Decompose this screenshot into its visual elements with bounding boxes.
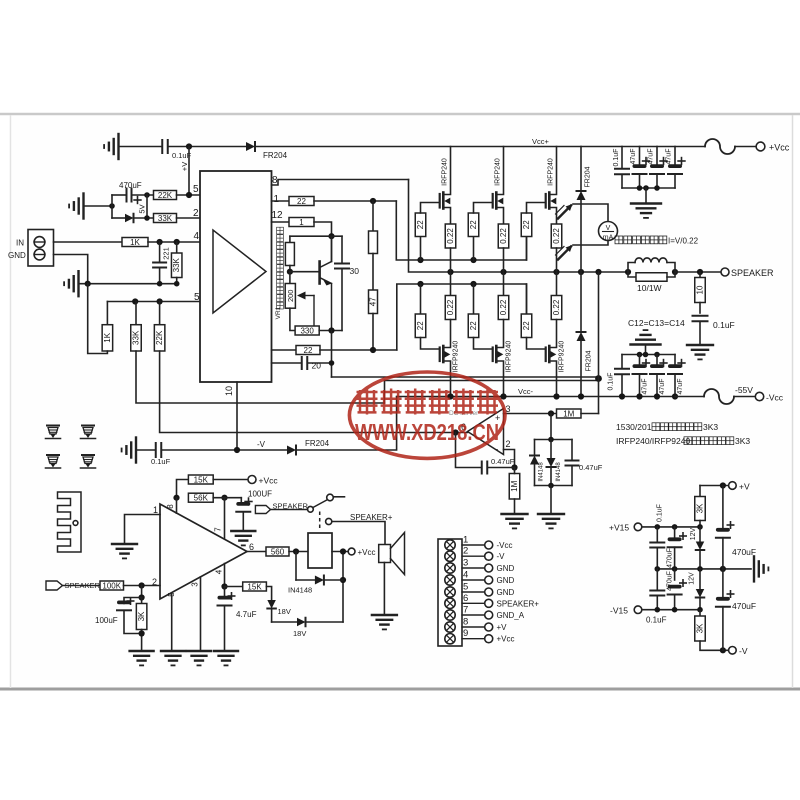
svg-text:12: 12 xyxy=(272,210,284,221)
resistor 1K (feedback) xyxy=(102,325,113,351)
svg-text:20: 20 xyxy=(312,361,322,371)
ground G11 xyxy=(112,543,137,545)
tag SPEAKER (input) xyxy=(46,581,63,590)
svg-text:22: 22 xyxy=(416,321,425,330)
transistor IRFP9240 #3 xyxy=(545,348,547,362)
ground G7 xyxy=(502,513,528,515)
node xyxy=(109,203,115,209)
ground G16 xyxy=(214,650,238,652)
ground G4 (Vcc+ bank) xyxy=(645,188,647,203)
svg-text:10/1W: 10/1W xyxy=(637,283,662,293)
svg-text:0.22: 0.22 xyxy=(552,299,561,315)
svg-text:Vcc-: Vcc- xyxy=(518,387,534,396)
terminal +V15 xyxy=(634,523,642,531)
svg-text:3K: 3K xyxy=(696,623,705,633)
diode FR204 (upper clamp) xyxy=(580,147,582,192)
svg-text:-V: -V xyxy=(257,440,266,449)
node sense junction xyxy=(595,375,602,382)
svg-text:100uF: 100uF xyxy=(95,616,118,625)
svg-text:+V: +V xyxy=(739,482,750,492)
svg-text:47uF: 47uF xyxy=(630,149,637,165)
svg-text:-55V: -55V xyxy=(735,385,753,395)
svg-text:IRFP9240: IRFP9240 xyxy=(506,341,513,373)
wire xyxy=(272,621,297,623)
svg-text:47uF: 47uF xyxy=(677,379,684,395)
svg-text:0.1uF: 0.1uF xyxy=(608,373,615,391)
ground G13 xyxy=(130,650,154,652)
resistor 47 xyxy=(369,290,378,314)
svg-text:33K: 33K xyxy=(172,257,181,272)
wire pin5 xyxy=(171,593,173,650)
ground G2 xyxy=(82,194,84,219)
wire -V to Vcc- rail xyxy=(296,397,397,451)
svg-text:0.1uF: 0.1uF xyxy=(151,457,171,466)
vertical CJK note (VR1 adjust) xyxy=(277,227,284,309)
inductor 10/1W with parallel resistor xyxy=(625,269,631,275)
diode IN4148 (up) xyxy=(534,440,536,456)
svg-text:SPEAKER+: SPEAKER+ xyxy=(497,599,540,608)
wire xyxy=(383,563,385,615)
resistor 22 (gate, IRFP9240 #2) xyxy=(473,284,475,314)
wire ground bus xyxy=(79,283,177,285)
wire relay to +Vcc xyxy=(332,551,348,553)
resistor 0.22 (source, IRFP9240 #2) xyxy=(503,272,505,296)
resistor 10 (Zobel) xyxy=(699,272,701,278)
wire output sense riser xyxy=(598,272,600,414)
capacitor 470uF (PSU lower) xyxy=(674,569,676,580)
resistor 33K xyxy=(154,214,177,223)
diode IN4148 (relay) xyxy=(296,579,315,581)
resistor 22 (gate, IRFP240 #3) xyxy=(526,237,528,261)
resistor 1M (to ground) xyxy=(509,474,520,500)
wire 33K to bus xyxy=(136,351,385,403)
wire x331.5 down xyxy=(331,331,333,378)
label bias test note xyxy=(615,236,623,244)
resistor 56K xyxy=(188,493,213,502)
resistor 22 (gate, IRFP9240 #1) xyxy=(420,284,422,314)
svg-text:10: 10 xyxy=(224,386,234,396)
pin row cap 20 xyxy=(272,362,302,364)
svg-text:5: 5 xyxy=(193,184,199,195)
ground G12 xyxy=(231,530,255,532)
svg-text:7: 7 xyxy=(214,527,223,532)
ground G3 xyxy=(77,271,79,296)
wire bank top xyxy=(622,354,675,356)
svg-text:+Vcc: +Vcc xyxy=(769,143,790,153)
resistor 0.22 (source, IRFP240 #2) xyxy=(498,224,509,248)
resistor 0.22 (source, IRFP9240 #3) xyxy=(556,272,558,296)
ground G6 (Zobel) xyxy=(687,344,713,346)
svg-text:0.47uF: 0.47uF xyxy=(579,463,603,472)
terminal -Vcc xyxy=(755,392,763,400)
resistor 3K (upper) xyxy=(699,486,701,497)
transistor IRFP240 #2 xyxy=(492,194,494,208)
transistor Q1 (bias) xyxy=(318,262,321,284)
relay K1 xyxy=(308,533,332,568)
svg-text:47uF: 47uF xyxy=(659,379,666,395)
svg-text:+V: +V xyxy=(497,623,508,632)
svg-text:22: 22 xyxy=(304,346,313,355)
resistor 0.22 (source, IRFP9240 #1) xyxy=(450,272,452,296)
capacitor 47uF (Vcc+ bank #2) xyxy=(656,147,658,168)
wire +V15 rail xyxy=(642,526,700,528)
svg-text:22: 22 xyxy=(416,220,425,229)
svg-text:SPEAKER+: SPEAKER+ xyxy=(350,513,393,522)
svg-text:3K3: 3K3 xyxy=(703,422,718,432)
wire Vcc+ rail xyxy=(256,146,706,148)
svg-text:+V: +V xyxy=(180,162,189,171)
svg-text:22: 22 xyxy=(297,197,306,206)
pin 4 (GND) xyxy=(445,575,455,585)
svg-text:FR204: FR204 xyxy=(305,439,330,448)
svg-text:1: 1 xyxy=(153,505,158,515)
svg-text:4: 4 xyxy=(215,569,224,574)
resistor 560 xyxy=(247,551,266,553)
resistor (VR1 upper) xyxy=(289,236,291,242)
svg-text:5V: 5V xyxy=(138,204,147,213)
capacitor 47uF (Vcc- bank #2) xyxy=(656,355,658,368)
svg-text:8: 8 xyxy=(166,504,175,509)
svg-text:330: 330 xyxy=(300,326,314,335)
svg-text:C12=C13=C14: C12=C13=C14 xyxy=(628,318,685,328)
wire bias network top xyxy=(290,235,342,237)
resistor 1K (input) xyxy=(122,238,148,247)
wire to pin4 xyxy=(148,241,200,243)
capacitor 47uF (Vcc+ bank #3) xyxy=(674,147,676,168)
svg-text:3: 3 xyxy=(191,582,200,587)
svg-text:+Vcc: +Vcc xyxy=(497,635,515,644)
pin 9 (+Vcc) xyxy=(445,634,455,644)
capacitor 47uF (Vcc- bank #1) xyxy=(639,355,641,368)
transistor IRFP240 #1 xyxy=(439,194,441,208)
probe arrow (lower) xyxy=(558,247,571,260)
resistor 22K (vertical) xyxy=(159,302,161,325)
resistor 3K (lower) xyxy=(699,610,701,616)
ground G17 xyxy=(372,614,397,616)
svg-text:Vcc+: Vcc+ xyxy=(532,137,550,146)
svg-text:4.7uF: 4.7uF xyxy=(236,610,257,619)
svg-text:-V: -V xyxy=(497,552,506,561)
svg-text:4: 4 xyxy=(463,570,468,581)
svg-text:22K: 22K xyxy=(158,191,173,200)
wire IN xyxy=(54,241,123,243)
svg-text:-Vcc: -Vcc xyxy=(766,393,784,403)
svg-text:8: 8 xyxy=(463,617,468,628)
svg-text:1: 1 xyxy=(299,218,304,227)
capacitor 47uF (Vcc- bank #3) xyxy=(674,355,676,368)
svg-text:470uF: 470uF xyxy=(732,601,756,611)
resistor chain x373 xyxy=(372,201,374,231)
svg-text:47uF: 47uF xyxy=(666,149,673,165)
svg-text:IRFP240: IRFP240 xyxy=(495,158,502,186)
pin 8 (+V) xyxy=(445,622,455,632)
svg-text:47: 47 xyxy=(369,297,378,306)
pin 7 (GND_A) xyxy=(445,610,455,620)
wire sense line S (y377) xyxy=(332,376,599,378)
svg-text:30: 30 xyxy=(350,266,360,276)
wire pin3 xyxy=(504,413,557,415)
wire gate bus lower (y284) xyxy=(397,284,527,350)
ground G1 (top rail) xyxy=(117,134,119,159)
connector J-IN (IN/GND terminal block) xyxy=(28,230,54,267)
resistor 1M (sense) xyxy=(557,409,582,418)
wire xyxy=(581,413,599,415)
svg-text:18V: 18V xyxy=(293,629,306,638)
terminal +Vcc xyxy=(756,142,765,151)
pin 3 (GND) xyxy=(445,563,455,573)
resistor 15K (mute) xyxy=(225,586,243,588)
wire pin2 feedback xyxy=(504,450,515,468)
capacitor 30 xyxy=(341,236,343,263)
wire to IN4148 xyxy=(295,552,297,581)
capacitor 0.1uF (PSU lower) xyxy=(656,569,658,590)
capacitor 0.47uF (clamp) xyxy=(571,440,573,461)
svg-text:VR1: VR1 xyxy=(275,306,282,319)
transistor IRFP9240 #2 xyxy=(492,348,494,362)
svg-text:1M: 1M xyxy=(563,409,574,418)
wire xyxy=(111,195,113,218)
wire output bus (y272) xyxy=(409,180,629,273)
wire 5V node xyxy=(146,195,148,218)
transistor IRFP9240 #1 xyxy=(439,348,441,362)
transistor IRFP240 #3 xyxy=(545,194,547,208)
svg-text:SPEAKER: SPEAKER xyxy=(731,268,774,278)
wire mid rail xyxy=(657,568,751,570)
resistor 22 (gate, IRFP240 #2) xyxy=(473,237,475,261)
capacitor 0.1uF (top rail) xyxy=(161,140,163,153)
wire xyxy=(168,146,246,148)
svg-text:-V: -V xyxy=(739,646,748,656)
watermark stamp (red) xyxy=(349,372,505,458)
svg-text:IRFP240/IRFP9240: IRFP240/IRFP9240 xyxy=(616,436,690,446)
svg-text:10: 10 xyxy=(696,285,705,294)
resistor 100K xyxy=(63,585,101,587)
IC U1 (1530/201 driver module) xyxy=(200,171,272,382)
node servo output xyxy=(452,429,458,435)
wire xyxy=(106,302,108,325)
diode 5V zener xyxy=(112,217,125,219)
svg-text:22K: 22K xyxy=(155,330,164,345)
capacitor 100uF xyxy=(124,598,142,604)
capacitor 4.7uF xyxy=(224,587,226,599)
svg-text:FR204: FR204 xyxy=(586,350,593,371)
svg-text:560: 560 xyxy=(271,547,285,556)
svg-text:3: 3 xyxy=(463,558,468,569)
svg-text:9: 9 xyxy=(463,628,468,639)
svg-text:0.22: 0.22 xyxy=(552,228,561,244)
terminal -V xyxy=(729,647,737,655)
svg-text:2: 2 xyxy=(506,439,511,449)
svg-text:470uF: 470uF xyxy=(119,181,142,190)
wire xyxy=(132,194,154,196)
wire -V15 rail xyxy=(642,609,700,611)
resistor 330 xyxy=(290,308,295,330)
svg-text:2: 2 xyxy=(193,208,199,219)
ground G8 xyxy=(538,513,564,515)
svg-text:33K: 33K xyxy=(158,214,173,223)
capacitor 100UF xyxy=(240,498,242,504)
trimmer VR1 200 xyxy=(289,272,291,284)
svg-text:6: 6 xyxy=(463,593,468,604)
capacitor 470uF (output upper) xyxy=(722,486,724,531)
svg-text:100UF: 100UF xyxy=(248,490,272,499)
svg-text:1: 1 xyxy=(274,194,280,205)
wire xyxy=(342,552,344,623)
diode FR204 (lower clamp) xyxy=(580,272,582,332)
wire pin1 to ground xyxy=(125,515,161,544)
diode IN4148 (down) xyxy=(550,440,552,459)
svg-text:+V15: +V15 xyxy=(609,523,629,533)
pin row 22 (y350) xyxy=(272,349,297,351)
ground G18 (PSU) xyxy=(753,556,755,581)
svg-text:47uF: 47uF xyxy=(648,149,655,165)
diode FR204 (top) xyxy=(246,142,255,151)
diode zener 18V #2 xyxy=(297,618,306,627)
capacitor 470uF (plates) xyxy=(112,194,126,196)
switch (relay contact) xyxy=(308,506,314,512)
svg-text:6: 6 xyxy=(249,542,254,552)
svg-text:GND: GND xyxy=(497,576,515,585)
wire to speaker icon xyxy=(332,522,385,545)
svg-text:0.47uF: 0.47uF xyxy=(491,457,515,466)
terminal SPEAKER+ xyxy=(326,518,332,524)
tag SPEAKER (to switch) xyxy=(255,506,270,514)
ground G14 xyxy=(161,650,185,652)
svg-text:IN: IN xyxy=(16,239,24,248)
svg-text:1M: 1M xyxy=(510,480,519,491)
resistor 22 (gate, IRFP240 #1) xyxy=(420,237,422,261)
capacitor 0.1uF (Zobel) xyxy=(693,315,708,317)
capacitor 0.1uF (Vcc- bank) xyxy=(621,355,623,369)
svg-text:-Vcc: -Vcc xyxy=(497,541,513,550)
svg-text:GND: GND xyxy=(8,251,26,260)
svg-text:3K3: 3K3 xyxy=(735,436,750,446)
wire pin7 xyxy=(224,498,226,539)
svg-text:+Vcc: +Vcc xyxy=(358,548,376,557)
resistor 0.22 (source, IRFP240 #1) xyxy=(445,224,456,248)
heatsink icon xyxy=(58,492,82,552)
svg-text:2: 2 xyxy=(463,546,468,557)
terminal SPEAKER xyxy=(721,268,729,276)
svg-text:IN4148: IN4148 xyxy=(556,462,562,482)
svg-text:0.1uF: 0.1uF xyxy=(713,320,735,330)
pin 1 (-Vcc) xyxy=(445,540,455,550)
node xyxy=(289,266,291,272)
connector CN1 (9-pin) xyxy=(438,539,462,646)
svg-text:12V: 12V xyxy=(689,572,696,585)
resistor 3K (protection) xyxy=(141,598,143,604)
resistor 15K (+Vcc feed) xyxy=(177,480,189,498)
diode zener 18V #1 xyxy=(267,600,276,609)
capacitor 0.47uF (servo feedback) xyxy=(456,433,482,468)
ground G5 (inverted, Vcc- bank) xyxy=(645,346,647,355)
svg-text:-: - xyxy=(495,445,498,456)
ground G-V (left of 0.1uF) xyxy=(135,438,137,463)
svg-text:0.22: 0.22 xyxy=(446,228,455,244)
svg-text:22: 22 xyxy=(469,220,478,229)
diode zener 12V (upper) xyxy=(699,527,701,542)
page (scanned sheet) xyxy=(10,115,793,689)
wire bank bottom xyxy=(622,187,675,189)
capacitor 47uF (Vcc+ bank #1) xyxy=(639,147,641,168)
svg-text:IN4148: IN4148 xyxy=(288,586,312,595)
svg-text:4: 4 xyxy=(194,231,200,242)
screw icon xyxy=(47,425,59,427)
svg-text:0.22: 0.22 xyxy=(446,299,455,315)
svg-text:1530/201: 1530/201 xyxy=(616,422,652,432)
resistor 33K (vertical) xyxy=(135,302,137,325)
fuse (+Vcc) xyxy=(705,139,735,154)
op-amp U3 (protection) xyxy=(160,504,247,599)
wire GND xyxy=(54,255,88,284)
wire pin5 (IN-) row xyxy=(107,301,200,303)
wire 22K to DC-servo bus xyxy=(160,351,468,433)
svg-text:FR204: FR204 xyxy=(585,166,592,187)
capacitor 221 xyxy=(159,242,161,262)
fuse (-Vcc) xyxy=(704,389,734,404)
svg-text:+Vcc: +Vcc xyxy=(259,476,279,486)
wire Vcc- rail xyxy=(397,396,675,398)
wire pin5 xyxy=(177,194,201,196)
svg-text:200: 200 xyxy=(286,290,295,303)
svg-text:470uF: 470uF xyxy=(667,571,674,591)
svg-text:18V: 18V xyxy=(278,607,291,616)
screw icon xyxy=(82,425,94,427)
wire +V riser to pin5 xyxy=(188,147,190,196)
wire clamp bottom xyxy=(535,485,573,487)
screw icon xyxy=(82,454,94,456)
svg-text:IN4148: IN4148 xyxy=(539,462,545,482)
op-amp U2 (DC servo) xyxy=(468,409,504,455)
ground G15 xyxy=(187,650,211,652)
svg-text:22: 22 xyxy=(522,321,531,330)
svg-text:3K: 3K xyxy=(137,611,146,621)
resistor 22 (gate, IRFP9240 #3) xyxy=(526,284,528,314)
svg-text:IRFP240: IRFP240 xyxy=(548,158,555,186)
terminal -V15 xyxy=(634,606,642,614)
svg-text:IRFP9240: IRFP9240 xyxy=(453,341,460,373)
svg-text:1: 1 xyxy=(463,535,468,546)
svg-text:5: 5 xyxy=(463,582,468,593)
capacitor 470uF (output lower) xyxy=(722,569,724,600)
terminal +Vcc (relay) xyxy=(348,548,355,555)
terminal +V xyxy=(729,482,737,490)
svg-text:0.1uF: 0.1uF xyxy=(613,149,620,167)
wire xyxy=(141,586,143,598)
wire +V node xyxy=(700,485,729,487)
wire sense line T (y380.5) xyxy=(385,380,599,382)
svg-text:15K: 15K xyxy=(194,475,209,484)
wire 33K path riser xyxy=(384,381,386,404)
op-amp symbol inside U1 xyxy=(213,230,266,313)
node xyxy=(144,192,150,198)
svg-text:22: 22 xyxy=(469,321,478,330)
svg-text:470uF: 470uF xyxy=(667,548,674,568)
pin 2 (-V) xyxy=(445,551,455,561)
wire xyxy=(88,284,108,354)
svg-text:1K: 1K xyxy=(103,332,112,342)
resistor 33K (vertical, input) xyxy=(176,242,178,253)
svg-text:3K: 3K xyxy=(696,503,705,513)
wire xyxy=(735,146,756,148)
meter V/mA (bias test) xyxy=(573,204,608,222)
svg-text:1K: 1K xyxy=(130,238,140,247)
svg-text:22: 22 xyxy=(522,220,531,229)
pin 6 (SPEAKER+) xyxy=(445,598,455,608)
svg-text:470uF: 470uF xyxy=(732,547,756,557)
svg-text:221: 221 xyxy=(162,247,171,260)
wire Vcc+ rail left xyxy=(119,146,161,148)
